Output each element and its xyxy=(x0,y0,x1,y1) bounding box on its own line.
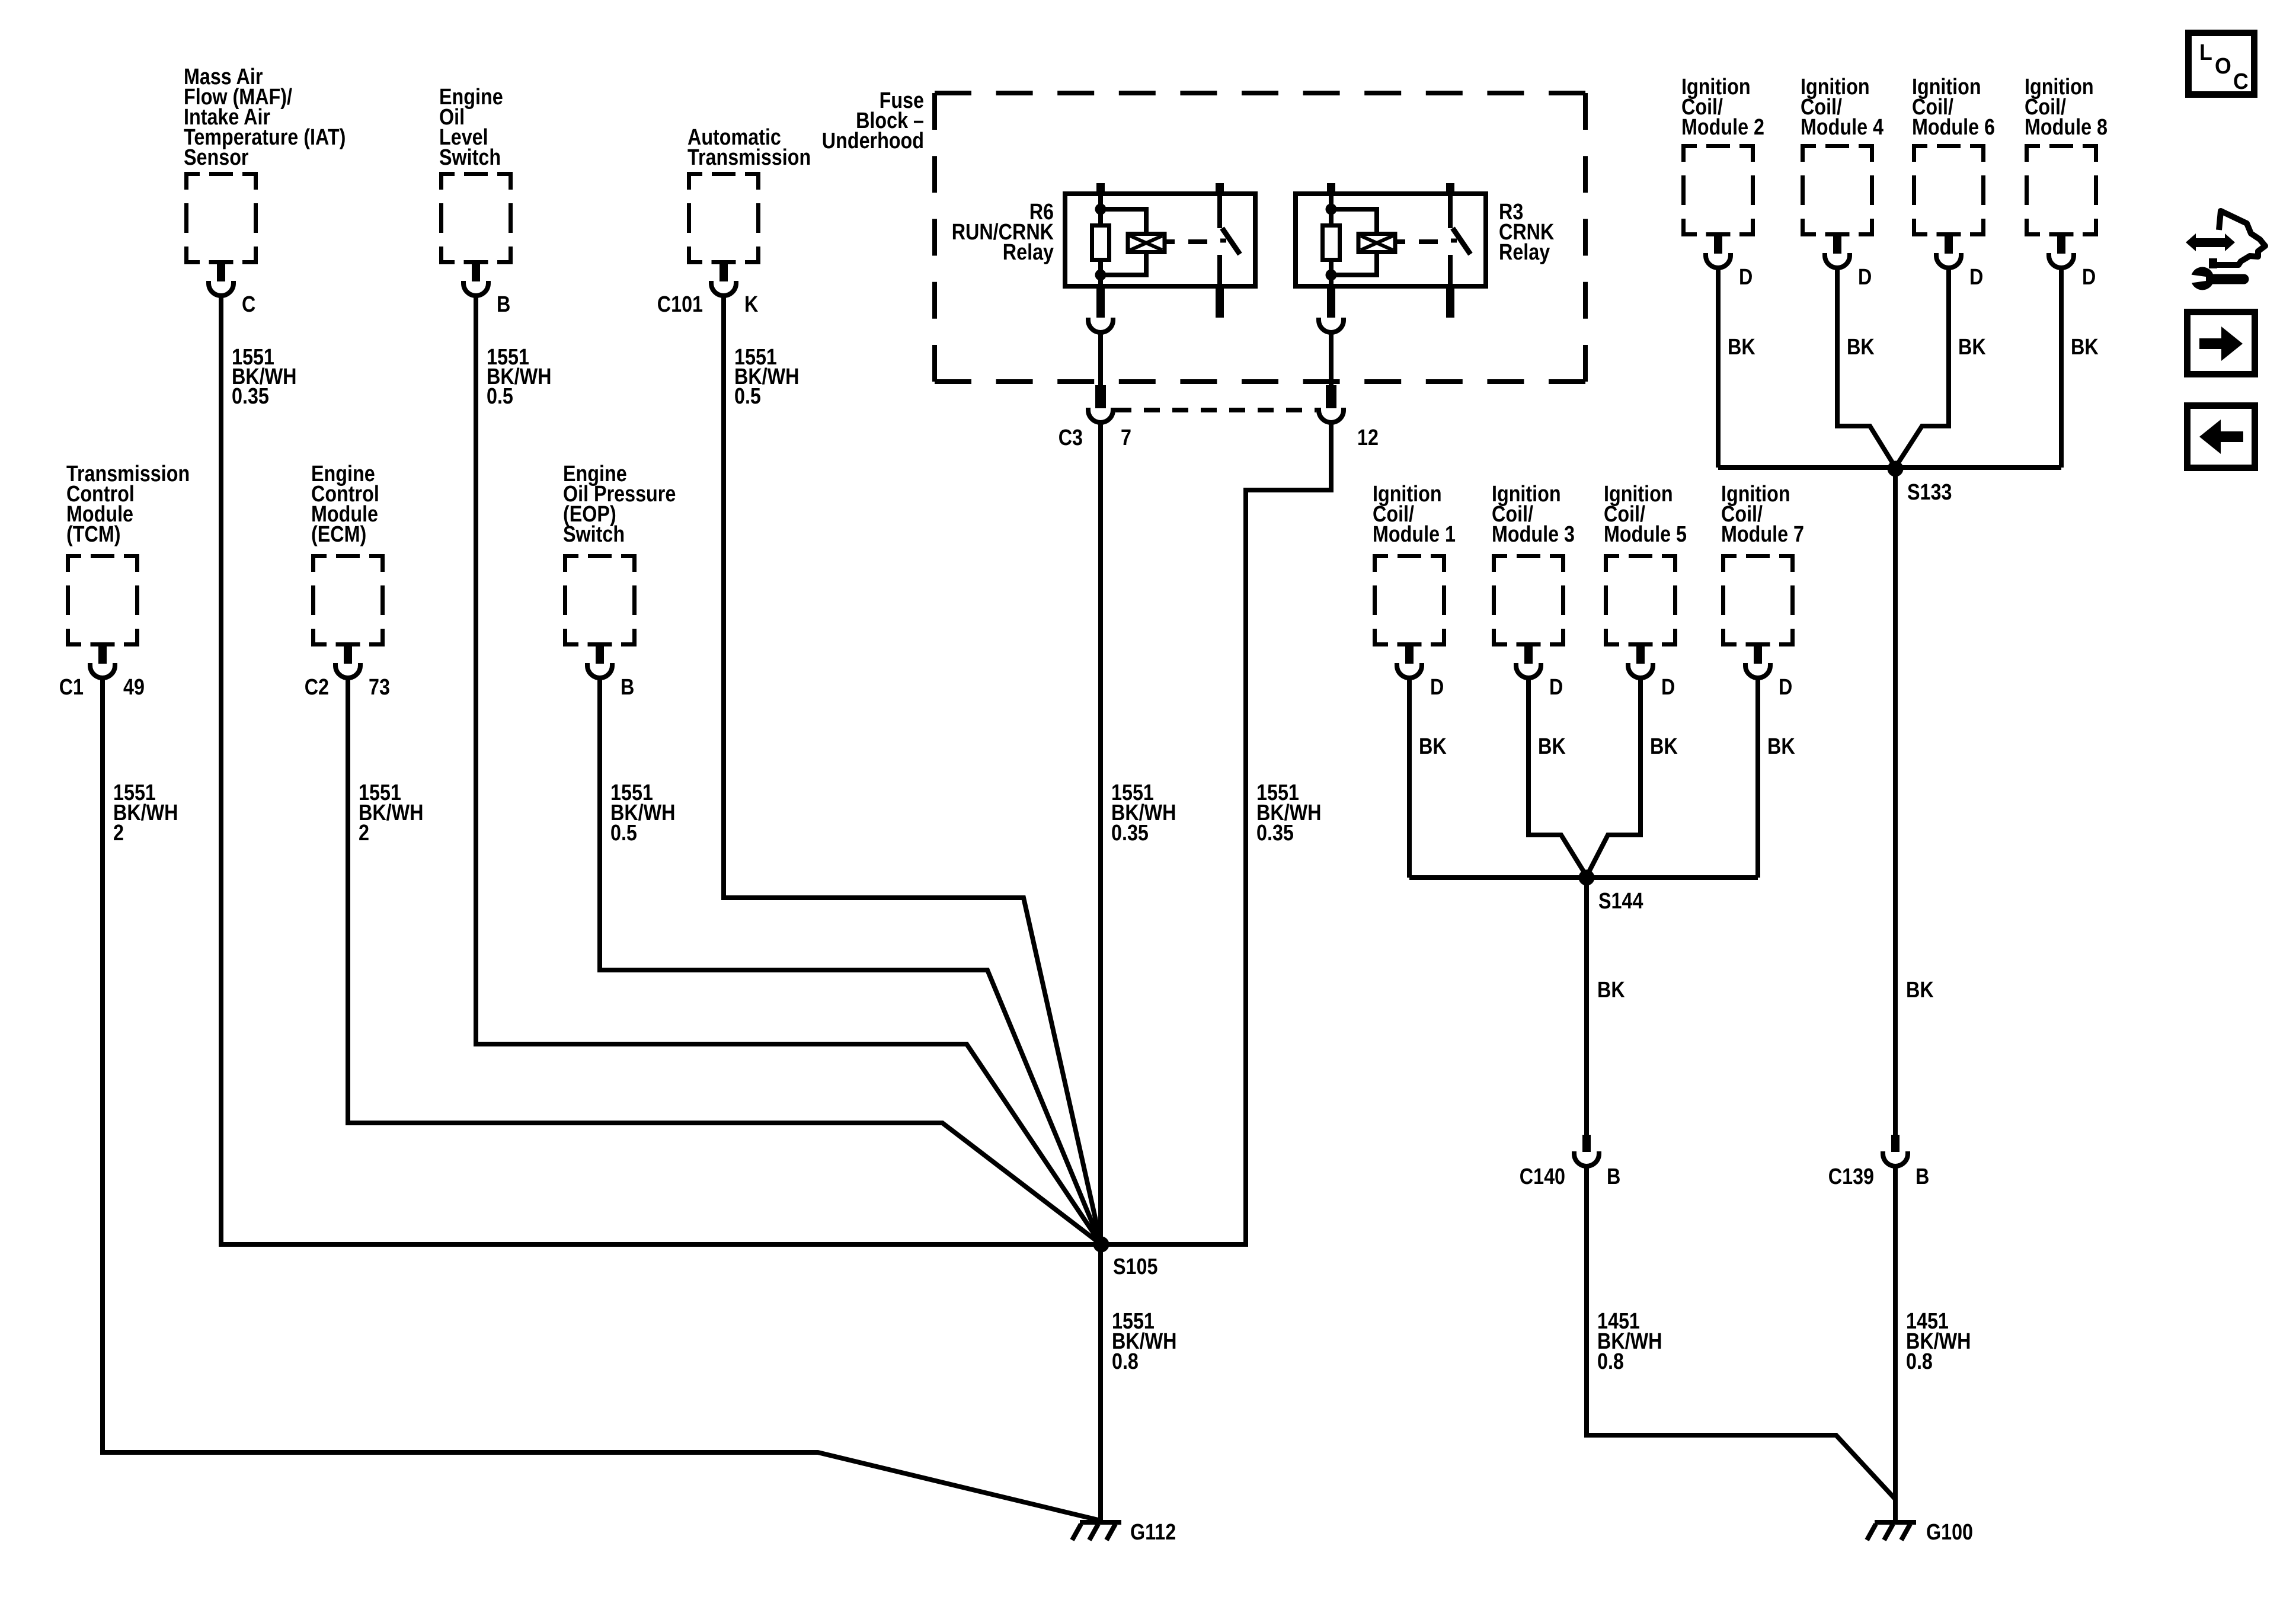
svg-text:0.5: 0.5 xyxy=(734,384,761,409)
svg-text:S133: S133 xyxy=(1907,480,1952,505)
svg-text:K: K xyxy=(744,292,759,317)
svg-text:Relay: Relay xyxy=(1499,240,1550,265)
svg-text:G100: G100 xyxy=(1926,1520,1973,1545)
svg-text:BK: BK xyxy=(1419,734,1447,759)
svg-text:0.35: 0.35 xyxy=(1256,821,1294,846)
svg-text:Module 8: Module 8 xyxy=(2025,115,2108,140)
svg-text:BK: BK xyxy=(1597,978,1625,1003)
svg-text:D: D xyxy=(1969,265,1983,290)
svg-text:Module 2: Module 2 xyxy=(1681,115,1764,140)
svg-text:BK: BK xyxy=(1958,335,1986,360)
svg-text:Module 4: Module 4 xyxy=(1801,115,1884,140)
svg-text:C140: C140 xyxy=(1520,1164,1565,1189)
svg-text:2: 2 xyxy=(359,821,369,846)
svg-text:BK: BK xyxy=(1538,734,1566,759)
svg-text:S144: S144 xyxy=(1598,889,1643,914)
svg-text:C: C xyxy=(2233,69,2249,94)
svg-text:L: L xyxy=(2199,40,2212,65)
svg-text:D: D xyxy=(1739,265,1753,290)
svg-text:Sensor: Sensor xyxy=(184,145,249,170)
svg-text:2: 2 xyxy=(113,821,124,846)
svg-text:C2: C2 xyxy=(305,675,329,700)
svg-text:D: D xyxy=(1661,675,1675,700)
svg-text:B: B xyxy=(1607,1164,1620,1189)
svg-text:0.35: 0.35 xyxy=(1111,821,1149,846)
svg-text:0.8: 0.8 xyxy=(1906,1349,1933,1374)
svg-text:BK: BK xyxy=(2071,335,2099,360)
svg-text:12: 12 xyxy=(1357,425,1379,450)
svg-text:Module 6: Module 6 xyxy=(1912,115,1995,140)
svg-text:BK: BK xyxy=(1847,335,1875,360)
svg-text:B: B xyxy=(497,292,510,317)
svg-text:G112: G112 xyxy=(1130,1520,1176,1545)
svg-text:C: C xyxy=(242,292,255,317)
svg-text:C139: C139 xyxy=(1828,1164,1874,1189)
svg-text:BK: BK xyxy=(1906,978,1934,1003)
svg-text:Relay: Relay xyxy=(1003,240,1054,265)
svg-text:Module 3: Module 3 xyxy=(1492,522,1575,547)
svg-text:D: D xyxy=(1858,265,1872,290)
svg-text:0.8: 0.8 xyxy=(1597,1349,1624,1374)
svg-text:7: 7 xyxy=(1121,425,1131,450)
svg-text:C1: C1 xyxy=(59,675,84,700)
svg-text:D: D xyxy=(1430,675,1444,700)
svg-text:C3: C3 xyxy=(1059,425,1083,450)
svg-text:0.5: 0.5 xyxy=(610,821,637,846)
svg-text:Transmission: Transmission xyxy=(687,145,811,170)
svg-text:BK: BK xyxy=(1728,335,1755,360)
svg-text:Module 1: Module 1 xyxy=(1373,522,1456,547)
svg-text:73: 73 xyxy=(369,675,390,700)
svg-text:S105: S105 xyxy=(1113,1254,1157,1279)
svg-text:Underhood: Underhood xyxy=(822,129,924,153)
svg-text:(TCM): (TCM) xyxy=(66,522,121,547)
svg-text:Switch: Switch xyxy=(563,522,625,547)
svg-text:BK: BK xyxy=(1650,734,1678,759)
svg-text:D: D xyxy=(2082,265,2096,290)
svg-text:0.8: 0.8 xyxy=(1112,1349,1139,1374)
svg-text:Module 7: Module 7 xyxy=(1721,522,1804,547)
svg-text:0.35: 0.35 xyxy=(232,384,269,409)
svg-text:Switch: Switch xyxy=(439,145,501,170)
svg-text:D: D xyxy=(1549,675,1563,700)
svg-text:D: D xyxy=(1779,675,1792,700)
svg-text:C101: C101 xyxy=(657,292,703,317)
svg-text:(ECM): (ECM) xyxy=(311,522,366,547)
svg-text:BK: BK xyxy=(1767,734,1795,759)
svg-text:O: O xyxy=(2215,54,2231,79)
svg-text:B: B xyxy=(1916,1164,1929,1189)
svg-text:Module 5: Module 5 xyxy=(1604,522,1687,547)
svg-text:49: 49 xyxy=(123,675,145,700)
svg-text:0.5: 0.5 xyxy=(487,384,513,409)
svg-text:B: B xyxy=(621,675,634,700)
